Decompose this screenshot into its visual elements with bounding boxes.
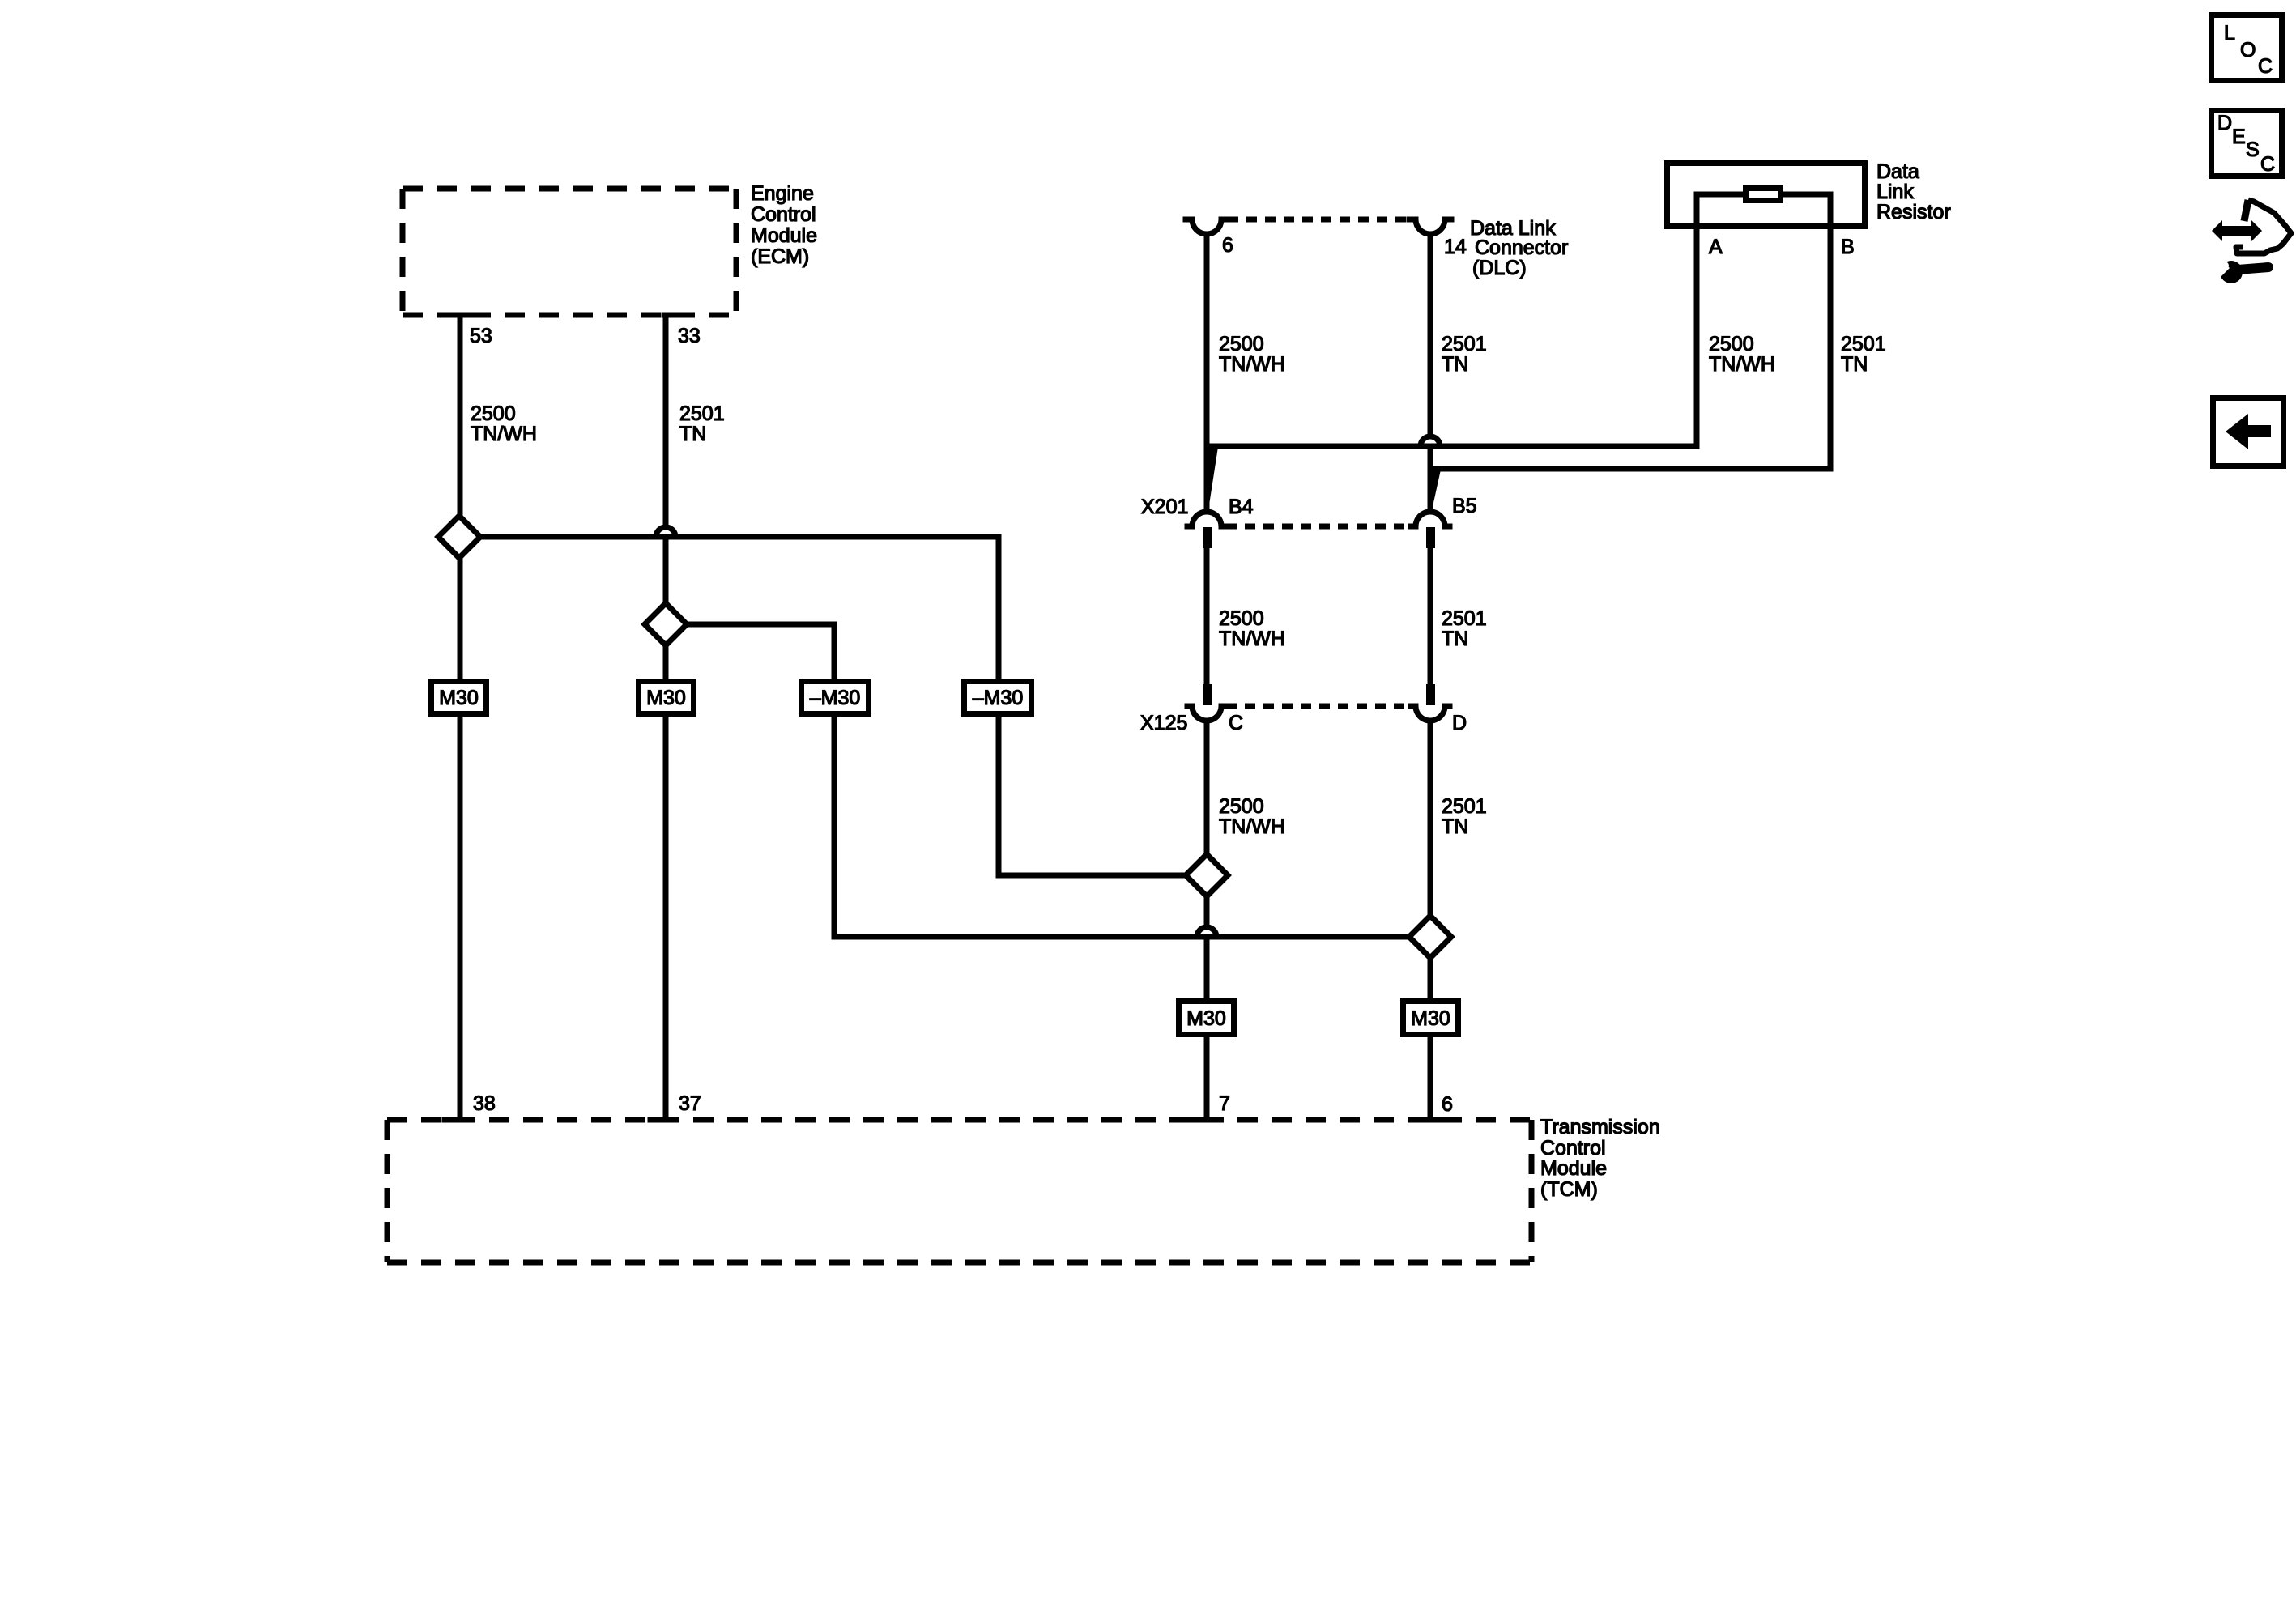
pin 53 tick at ECM bbox=[458, 313, 480, 318]
wire resistor pin B drop bbox=[1828, 194, 1834, 469]
connector X201 B5 terminal bbox=[1411, 512, 1450, 526]
module ECM dashed box bbox=[403, 189, 736, 315]
label 2501 TN (ECM drop) bbox=[679, 402, 725, 445]
label 2500 TN/WH (X201 to X125) bbox=[1219, 607, 1285, 650]
wire segment -M30 (first) down to H4 corner bbox=[832, 715, 837, 937]
harness connector M30 (2501 bottom) bbox=[1404, 1002, 1459, 1035]
connector DLC pin 6 terminal bbox=[1186, 219, 1228, 234]
label 2500 TN/WH (resistor A drop) bbox=[1709, 333, 1775, 376]
icon connector service (double arrow, shell, wrench) bbox=[2212, 200, 2291, 283]
label 2500 TN/WH (ECM drop) bbox=[471, 402, 537, 445]
wire segment H2 corner down to -M30 box (left) bbox=[832, 624, 837, 679]
wire 2501 segment X125 D to splice S4 bbox=[1428, 721, 1433, 916]
svg-text:2501: 2501 bbox=[1442, 607, 1487, 630]
svg-text:X125: X125 bbox=[1140, 712, 1187, 734]
svg-text:TN/WH: TN/WH bbox=[1709, 353, 1775, 376]
connector X125 C terminal bbox=[1187, 706, 1226, 721]
wire segment H1 corner down to -M30 box (right) bbox=[996, 537, 1002, 678]
wire resistor pin A drop bbox=[1694, 194, 1700, 446]
svg-text:TN: TN bbox=[1442, 628, 1468, 650]
svg-text:TN: TN bbox=[1442, 815, 1468, 838]
harness connector -M30 (first) bbox=[802, 682, 869, 714]
svg-text:D: D bbox=[1452, 712, 1467, 734]
svg-text:TN/WH: TN/WH bbox=[1219, 628, 1285, 650]
svg-text:TN/WH: TN/WH bbox=[1219, 353, 1285, 376]
splice S4 on 2501 bbox=[1409, 916, 1451, 958]
wire segment -M30 (second) down to H3 corner bbox=[996, 715, 1002, 875]
svg-text:M30: M30 bbox=[1186, 1007, 1226, 1030]
svg-text:(TCM): (TCM) bbox=[1540, 1178, 1598, 1201]
svg-text:B5: B5 bbox=[1452, 495, 1477, 517]
harness connector -M30 (second) bbox=[965, 682, 1032, 714]
svg-text:D: D bbox=[2217, 112, 2232, 134]
connector X201 dashed line bbox=[1226, 524, 1411, 530]
svg-text:2500: 2500 bbox=[1219, 333, 1264, 355]
wire 2501 segment hop to junction B bbox=[1428, 449, 1433, 510]
svg-text:2500: 2500 bbox=[1219, 607, 1264, 630]
wire 2501 segment M30 to TCM pin37 bbox=[663, 717, 669, 1118]
wire 2501 segment M30 to TCM pin6 bbox=[1428, 1037, 1433, 1118]
svg-text:Resistor: Resistor bbox=[1876, 201, 1951, 223]
svg-text:M30: M30 bbox=[1411, 1007, 1450, 1030]
resistor element bbox=[1746, 189, 1781, 201]
connector DLC pin 14 terminal bbox=[1409, 219, 1451, 234]
svg-text:B: B bbox=[1841, 236, 1855, 258]
label Data Link Resistor bbox=[1876, 160, 1951, 223]
svg-text:TN/WH: TN/WH bbox=[1219, 815, 1285, 838]
svg-text:C: C bbox=[1229, 712, 1243, 734]
svg-text:33: 33 bbox=[678, 325, 701, 347]
svg-text:A: A bbox=[1709, 236, 1723, 258]
svg-text:Transmission: Transmission bbox=[1540, 1116, 1660, 1138]
svg-text:14: 14 bbox=[1444, 236, 1467, 258]
wire hop of 2501 over A-horizontal bbox=[1421, 436, 1440, 446]
splice S3 on 2500 bbox=[1186, 854, 1228, 896]
svg-text:7: 7 bbox=[1219, 1092, 1230, 1115]
connector X125 dashed line bbox=[1226, 704, 1411, 709]
svg-text:2500: 2500 bbox=[471, 402, 516, 425]
harness connector M30 (2501 left) bbox=[639, 682, 694, 714]
wire segment H4 corner to splice S4 bbox=[834, 934, 1409, 940]
svg-text:(DLC): (DLC) bbox=[1472, 257, 1527, 279]
connector X125 D pin bbox=[1426, 684, 1435, 705]
wire segment splice S1 to H1 corner bbox=[480, 534, 999, 540]
wire wedge into B4 bbox=[1207, 447, 1218, 510]
harness connector M30 (2500 left) bbox=[432, 682, 487, 714]
wire 2500 segment splice S3 to hop bbox=[1204, 896, 1210, 927]
wire hop of 2500 over H4 bbox=[1197, 927, 1216, 937]
wire 2501 segment splice S4 to M30 bbox=[1428, 958, 1433, 998]
svg-text:S: S bbox=[2246, 138, 2260, 161]
label 2501 TN (resistor B drop) bbox=[1841, 333, 1886, 376]
svg-text:C: C bbox=[2260, 153, 2275, 176]
wire 2500 TN/WH segment DLC pin6 down to X201 B4 bbox=[1204, 234, 1210, 510]
connector X201 B5 pin bbox=[1426, 527, 1435, 548]
wire 2500 segment B4 to X125 C bbox=[1204, 548, 1210, 684]
svg-text:Connector: Connector bbox=[1475, 236, 1568, 259]
icon DESC box bbox=[2212, 111, 2282, 177]
svg-text:M30: M30 bbox=[646, 687, 686, 709]
resistor internal wire bbox=[1697, 192, 1830, 198]
label Data Link Connector (DLC) bbox=[1470, 217, 1568, 279]
svg-text:6: 6 bbox=[1442, 1093, 1453, 1116]
svg-text:–M30: –M30 bbox=[810, 687, 861, 709]
wire junction B: horizontal 2501 to resistor pin B bbox=[1430, 466, 1830, 472]
connector X201 B4 terminal bbox=[1187, 512, 1226, 526]
connector X201 B4 pin bbox=[1203, 527, 1212, 548]
wire 2501 TN segment ECM pin33 down to hop bbox=[663, 315, 669, 527]
wire 2500 segment hop to M30 bbox=[1204, 940, 1210, 998]
svg-text:2500: 2500 bbox=[1709, 333, 1754, 355]
wire 2501 TN segment DLC pin14 down to hop bbox=[1428, 234, 1433, 436]
wire segment H3 corner to splice S3 bbox=[999, 873, 1186, 879]
svg-text:B4: B4 bbox=[1229, 496, 1254, 518]
wire 2501 segment splice S2 to M30 box bbox=[663, 645, 669, 679]
pin 38 tick at TCM bbox=[445, 1117, 464, 1123]
svg-text:38: 38 bbox=[473, 1092, 496, 1115]
module TCM dashed box bbox=[387, 1120, 1531, 1262]
svg-text:2501: 2501 bbox=[1442, 795, 1487, 818]
svg-text:Control: Control bbox=[1540, 1137, 1606, 1160]
icon LOC box bbox=[2212, 15, 2282, 81]
svg-text:37: 37 bbox=[679, 1092, 701, 1115]
wire 2500 TN/WH segment ECM pin53 to splice S1 bbox=[458, 315, 463, 516]
svg-text:–M30: –M30 bbox=[973, 687, 1024, 709]
wire 2500 segment splice S1 to M30 box bbox=[458, 558, 463, 679]
component Data Link Resistor box bbox=[1668, 164, 1865, 227]
svg-text:X201: X201 bbox=[1141, 496, 1188, 518]
svg-text:53: 53 bbox=[470, 325, 492, 347]
svg-text:L: L bbox=[2224, 22, 2235, 45]
label 2501 TN (X125 drop) bbox=[1442, 795, 1487, 838]
svg-text:2501: 2501 bbox=[1841, 333, 1886, 355]
svg-text:M30: M30 bbox=[439, 687, 479, 709]
pin 7 tick at TCM bbox=[1189, 1117, 1208, 1123]
svg-text:Module: Module bbox=[751, 224, 817, 247]
svg-text:Module: Module bbox=[1540, 1157, 1607, 1180]
module DLC dashed line bbox=[1228, 217, 1409, 223]
wire hop of 2501 over H1 bbox=[656, 527, 675, 537]
pin 33 tick at ECM bbox=[664, 313, 687, 318]
svg-text:2500: 2500 bbox=[1219, 795, 1264, 818]
svg-text:Control: Control bbox=[751, 203, 816, 226]
label Engine Control Module (ECM) bbox=[751, 182, 817, 268]
wire 2500 segment M30 to TCM pin7 bbox=[1204, 1037, 1210, 1118]
pin 6 tick at TCM bbox=[1421, 1117, 1440, 1123]
label 2501 TN (DLC drop) bbox=[1442, 333, 1487, 376]
svg-text:2501: 2501 bbox=[1442, 333, 1487, 355]
svg-text:C: C bbox=[2258, 55, 2273, 78]
label 2500 TN/WH (DLC drop) bbox=[1219, 333, 1285, 376]
svg-text:TN: TN bbox=[679, 423, 706, 445]
wire segment splice S2 to H2 corner bbox=[687, 622, 834, 628]
svg-text:E: E bbox=[2232, 126, 2246, 148]
wire 2501 TN segment hop to splice S2 bbox=[663, 540, 669, 603]
svg-text:(ECM): (ECM) bbox=[751, 245, 809, 268]
svg-text:Link: Link bbox=[1876, 181, 1914, 203]
svg-text:O: O bbox=[2240, 39, 2256, 62]
label Transmission Control Module (TCM) bbox=[1540, 1116, 1660, 1201]
wire wedge into B5 bbox=[1430, 470, 1441, 510]
svg-text:Data: Data bbox=[1876, 160, 1919, 183]
wire junction A: horizontal 2500 to resistor pin A bbox=[1207, 444, 1697, 449]
pin 37 tick at TCM bbox=[650, 1117, 670, 1123]
wire 2501 segment B5 to X125 D bbox=[1428, 548, 1433, 684]
svg-text:TN: TN bbox=[1841, 353, 1868, 376]
svg-text:Engine: Engine bbox=[751, 182, 814, 205]
wire 2500 segment M30 to TCM pin38 bbox=[458, 717, 463, 1118]
wire 2500 segment X125 C to splice S3 bbox=[1204, 721, 1210, 854]
connector X125 D terminal bbox=[1411, 706, 1450, 721]
label 2501 TN (X201 to X125) bbox=[1442, 607, 1487, 650]
label 2500 TN/WH (X125 drop) bbox=[1219, 795, 1285, 838]
splice S2 on 2501 bbox=[645, 603, 687, 645]
splice S1 on 2500 bbox=[438, 516, 480, 558]
connector X125 C pin bbox=[1203, 684, 1212, 705]
svg-text:TN: TN bbox=[1442, 353, 1468, 376]
svg-text:TN/WH: TN/WH bbox=[471, 423, 537, 445]
harness connector M30 (2500 bottom) bbox=[1179, 1002, 1234, 1035]
svg-text:2501: 2501 bbox=[679, 402, 725, 425]
svg-text:6: 6 bbox=[1222, 234, 1233, 257]
icon back arrow box bbox=[2213, 398, 2284, 466]
